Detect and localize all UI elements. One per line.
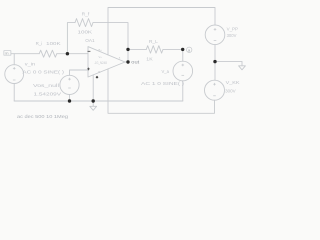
v_in plus <box>13 67 16 70</box>
op-amp input glyphs <box>87 51 90 70</box>
V_a minus <box>182 74 185 76</box>
wire V_PP to V_KK <box>214 45 216 81</box>
junction inverting input <box>66 52 69 55</box>
svg-text:.JG_N248: .JG_N248 <box>94 61 107 65</box>
svg-text:R_i: R_i <box>36 41 43 47</box>
diamond mark below opamp <box>96 76 99 79</box>
voltage source V_a <box>173 61 193 81</box>
ground right <box>239 62 246 70</box>
wire feedback riser <box>67 23 75 54</box>
svg-text:R_f: R_f <box>82 11 90 17</box>
svg-text:out: out <box>131 60 140 65</box>
wire R_i to opamp inverting input <box>57 53 88 55</box>
wire opamp output stub <box>125 61 128 63</box>
svg-text:V_a: V_a <box>162 69 170 74</box>
svg-text:AC 0 0 SINE( ): AC 0 0 SINE( ) <box>22 70 64 75</box>
svg-text:Vos_null: Vos_null <box>33 83 59 88</box>
svg-text:v_in: v_in <box>25 62 36 67</box>
node a circle <box>187 47 192 52</box>
wire V- rail bottom <box>108 69 215 113</box>
wire V+ rail top <box>108 8 215 55</box>
wire Vos_null to noninverting input <box>70 70 89 75</box>
voltage source V_KK <box>205 80 225 100</box>
source polarity marks <box>13 28 216 96</box>
svg-text:B+: B+ <box>99 48 103 52</box>
V_PP minus <box>214 40 217 42</box>
wire v_in top stub <box>13 54 15 65</box>
wire ground rail bottom <box>14 100 183 102</box>
svg-text:AC 1 0 SINE( ): AC 1 0 SINE( ) <box>141 81 185 86</box>
svg-text:in: in <box>6 52 9 56</box>
svg-text:300V: 300V <box>225 88 236 93</box>
svg-text:100K: 100K <box>46 41 61 47</box>
junction node a <box>181 48 184 51</box>
Vos_null minus <box>68 87 71 89</box>
svg-text:B-: B- <box>98 70 101 74</box>
svg-text:100K: 100K <box>78 30 94 36</box>
voltage source v_in <box>5 65 24 84</box>
wire B- pin down <box>92 75 94 101</box>
V_KK plus <box>213 83 216 86</box>
wire Vos_null bottom stub <box>69 95 71 102</box>
wire node a to V_a <box>182 49 184 61</box>
junction ground rail <box>92 99 95 102</box>
voltage source V_PP <box>205 25 225 45</box>
Vos_null plus <box>68 78 71 81</box>
svg-text:R_L: R_L <box>149 39 159 44</box>
wire V_a bottom stub <box>182 81 184 101</box>
v_in minus <box>13 79 16 81</box>
op-amp OA1 triangle <box>88 47 125 77</box>
voltage source Vos_null <box>60 75 79 94</box>
junction Vos_null rail <box>68 99 71 102</box>
wire supply midpoint to ground <box>215 61 242 63</box>
wire R_L to node a <box>163 48 183 50</box>
wire R_f to output riser <box>93 23 128 62</box>
junction dots <box>66 48 217 103</box>
V_a plus <box>182 64 185 67</box>
resistor R_L <box>146 46 163 53</box>
svg-text:V+: V+ <box>99 55 103 59</box>
svg-text:300V: 300V <box>227 33 237 38</box>
svg-text:1.54209V: 1.54209V <box>34 92 63 97</box>
wire out node to R_L <box>128 48 146 50</box>
svg-text:V_PP: V_PP <box>227 26 238 31</box>
svg-text:OA1: OA1 <box>85 38 95 44</box>
svg-text:1K: 1K <box>146 57 152 62</box>
svg-text:ac dec 500 10 1Meg: ac dec 500 10 1Meg <box>17 114 68 120</box>
V_PP plus <box>214 28 217 31</box>
resistor R_i <box>39 50 57 57</box>
port box in <box>4 51 11 56</box>
opamp minus glyph <box>88 50 91 52</box>
wire in to R_i <box>11 53 39 55</box>
ground bottom <box>90 101 97 110</box>
opamp plus glyph <box>87 68 90 71</box>
wire v_in bottom stub <box>13 84 15 102</box>
resistor R_f <box>75 19 93 27</box>
V_KK minus <box>213 95 216 97</box>
junction output <box>126 60 129 63</box>
junction feedback R_L <box>126 48 129 51</box>
svg-text:V_KK: V_KK <box>226 80 240 85</box>
junction supply midpoint <box>213 60 216 63</box>
